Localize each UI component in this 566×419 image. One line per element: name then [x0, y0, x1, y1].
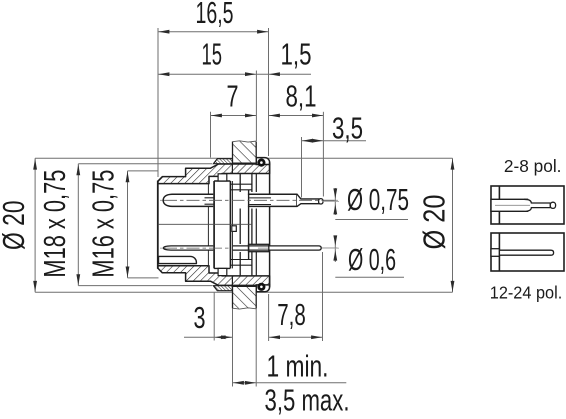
wire: extension line left face x158 [157, 28, 159, 177]
svg-text:15: 15 [202, 38, 223, 72]
upper pin taper and tail [297, 194, 322, 206]
svg-text:12-24 pol.: 12-24 pol. [490, 282, 563, 302]
node: split line [158, 223, 252, 225]
wire: extension line x322.5 bottom (lower pin tip) [322, 252, 324, 341]
svg-text:3,5 max.: 3,5 max. [265, 384, 350, 418]
svg-text:3: 3 [194, 301, 206, 335]
svg-text:Ø 0,6: Ø 0,6 [348, 243, 396, 277]
svg-text:7,8: 7,8 [277, 298, 306, 332]
dimension 8,1 line [269, 114, 324, 118]
lower pin [163, 246, 321, 250]
wire: extension line x323.4 (pin tip right) [322, 112, 324, 197]
wire: M16 top extension [128, 170, 159, 172]
wire: M18 bottom extension [78, 285, 212, 287]
dimension 7,8 line [269, 335, 323, 339]
dimension diameter 20 left line [33, 158, 37, 292]
dimension panel thickness line [233, 381, 347, 385]
dimension 3,5 line [302, 139, 367, 143]
wire: M16 bottom extension [128, 277, 159, 279]
svg-text:M18 x 0,75: M18 x 0,75 [38, 170, 72, 278]
dimension diameter 20 right line [451, 158, 455, 292]
dimension 15 / 1,5 line [158, 72, 311, 76]
svg-text:M16 x 0,75: M16 x 0,75 [87, 170, 121, 278]
dimension M16 line [126, 171, 130, 278]
wire: shared extension line top (flange OD) [35, 157, 452, 159]
wire: extension line x301.5 (3,5 dim left) [301, 137, 303, 198]
wire: extension line x214.2 (nut face, bottom) [213, 293, 215, 341]
O-ring top [257, 159, 265, 167]
svg-text:1 min.: 1 min. [267, 350, 329, 384]
lower pin solder cup [249, 244, 269, 251]
upper pin shoulder step [205, 198, 215, 204]
svg-text:7: 7 [227, 80, 239, 114]
svg-text:2-8 pol.: 2-8 pol. [504, 156, 562, 176]
shell upper section (hatched staircase) [158, 164, 270, 184]
wire: flange boundary bottom [231, 276, 233, 286]
lock nut bottom (dense hatch) [213, 286, 232, 291]
wire: extension line x268.6 bottom (flange face) [268, 294, 270, 341]
lock nut top (dense hatch) [213, 159, 232, 164]
svg-text:1,5: 1,5 [281, 38, 312, 72]
wire: panel left face extension down [232, 308, 234, 386]
svg-text:16,5: 16,5 [196, 0, 234, 30]
upper pin tip bulb [319, 199, 323, 204]
upper pin barrel [163, 194, 297, 206]
svg-text:Ø 20: Ø 20 [0, 200, 31, 250]
flange rear face [269, 162, 271, 287]
detail box 2-8 pol. [491, 186, 564, 224]
wire: panel right face extension down [255, 308, 257, 386]
svg-text:Ø 20: Ø 20 [417, 195, 451, 250]
contact sleeve lower [159, 256, 197, 263]
panel section top [233, 141, 257, 163]
dimension M18 line [76, 164, 80, 286]
dimension 3 line (bottom) [184, 335, 233, 339]
wire: extension line x268.5 (flange rear face) [268, 28, 270, 156]
wire: extension line x210.5 (7 dim left) [210, 112, 212, 158]
detail box 12-24 pol. [491, 233, 564, 271]
wire: lower pin centerline overlay [164, 247, 337, 249]
flange lip top [256, 158, 269, 165]
detail pin 2-8 pol. [491, 199, 556, 211]
shell lower section (hatched staircase) [158, 266, 270, 286]
shell left face [157, 181, 159, 269]
upper pin solder cup bore [249, 198, 271, 205]
pin axis lower (centerline) [160, 247, 338, 249]
panel section bottom [233, 286, 257, 309]
svg-text:8,1: 8,1 [286, 80, 317, 114]
detail block [232, 226, 237, 232]
pin axis upper (centerline) [160, 199, 338, 201]
O-ring bottom [257, 283, 265, 291]
flange lip bottom [256, 285, 269, 292]
insulator mask white [213, 180, 248, 269]
wire: cavity inner step line [207, 184, 209, 266]
svg-text:3,5: 3,5 [332, 112, 363, 146]
dimension 7 line [211, 114, 257, 118]
wire: flange boundary top [231, 164, 233, 174]
detail pin 12-24 pol. [491, 249, 554, 257]
wire: flange inner front face [255, 174, 257, 276]
insulator column B lines [230, 174, 252, 276]
svg-text:Ø 0,75: Ø 0,75 [347, 183, 409, 217]
insulator column A [214, 174, 232, 276]
dimension diameter 0,75 leader [322, 188, 408, 220]
wire: shared extension line bottom (flange OD) [35, 291, 452, 293]
wire: M18 top extension [78, 163, 212, 165]
dimension 16,5 line [158, 30, 269, 34]
wire: extension line x256.4 (panel front face) [255, 71, 257, 142]
wire: upper pin centerline overlay [164, 199, 337, 201]
dimension diameter 0,6 leader [322, 235, 404, 277]
